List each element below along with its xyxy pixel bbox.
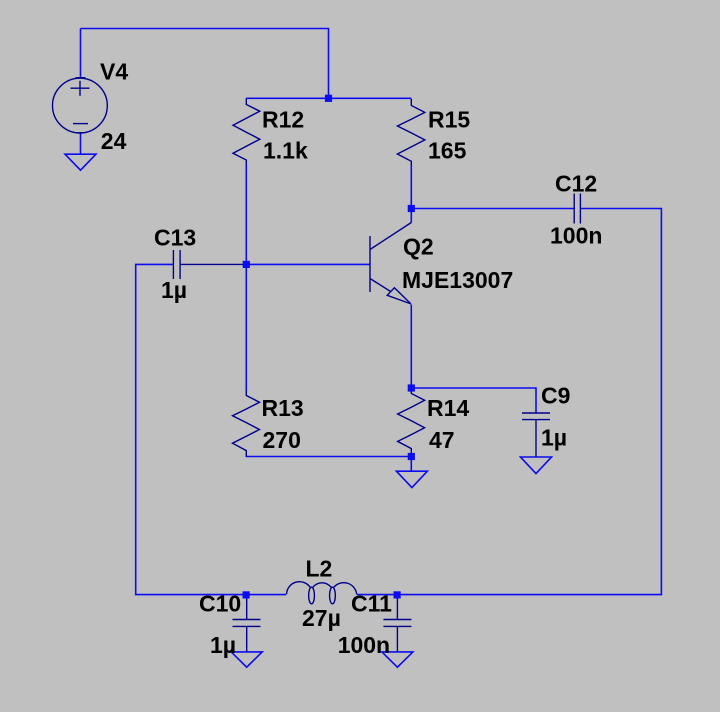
svg-text:165: 165 bbox=[428, 138, 467, 164]
svg-text:R13: R13 bbox=[262, 395, 304, 421]
svg-text:R15: R15 bbox=[428, 107, 470, 133]
svg-text:V4: V4 bbox=[100, 59, 128, 85]
svg-text:Q2: Q2 bbox=[403, 234, 434, 260]
svg-text:100n: 100n bbox=[338, 632, 390, 658]
svg-text:270: 270 bbox=[263, 427, 301, 453]
svg-text:C13: C13 bbox=[154, 225, 196, 251]
svg-text:24: 24 bbox=[101, 128, 127, 154]
svg-text:R14: R14 bbox=[427, 395, 469, 421]
svg-text:L2: L2 bbox=[306, 556, 333, 582]
svg-text:C11: C11 bbox=[351, 591, 392, 617]
svg-text:MJE13007: MJE13007 bbox=[402, 267, 513, 293]
svg-text:1µ: 1µ bbox=[161, 277, 187, 303]
svg-text:1.1k: 1.1k bbox=[263, 138, 308, 164]
svg-text:C9: C9 bbox=[541, 383, 570, 409]
svg-text:C12: C12 bbox=[555, 170, 597, 196]
svg-text:27µ: 27µ bbox=[302, 605, 341, 631]
svg-text:47: 47 bbox=[429, 427, 455, 453]
svg-text:R12: R12 bbox=[262, 107, 304, 133]
svg-text:1µ: 1µ bbox=[541, 425, 567, 451]
svg-text:100n: 100n bbox=[550, 223, 602, 249]
svg-text:1µ: 1µ bbox=[210, 632, 236, 658]
svg-text:C10: C10 bbox=[199, 591, 241, 617]
